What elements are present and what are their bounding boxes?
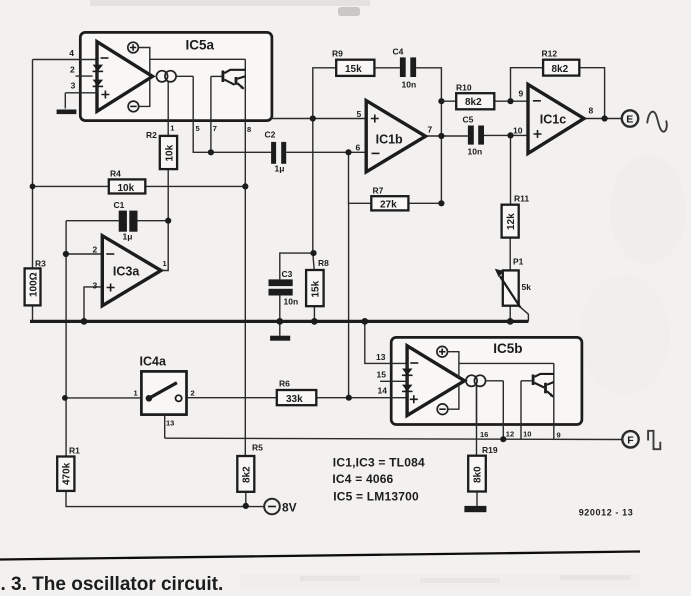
svg-text:C5: C5 [463, 115, 474, 125]
svg-text:13: 13 [166, 419, 174, 428]
svg-text:8: 8 [589, 106, 594, 116]
svg-text:IC4a: IC4a [140, 355, 167, 369]
svg-text:C3: C3 [282, 269, 293, 279]
svg-text:9: 9 [557, 431, 561, 440]
svg-text:R12: R12 [542, 49, 558, 59]
svg-text:R19: R19 [482, 445, 498, 455]
svg-text:10n: 10n [284, 297, 299, 307]
svg-text:C4: C4 [393, 47, 404, 57]
svg-text:100Ω: 100Ω [29, 272, 40, 297]
svg-text:2: 2 [70, 65, 75, 75]
svg-text:920012 - 13: 920012 - 13 [579, 508, 634, 518]
svg-text:3: 3 [93, 281, 98, 291]
svg-text:IC1,IC3 = TL084: IC1,IC3 = TL084 [333, 456, 425, 470]
svg-text:2: 2 [93, 245, 98, 255]
svg-text:14: 14 [378, 386, 388, 396]
svg-text:10k: 10k [164, 144, 175, 161]
svg-text:R9: R9 [332, 49, 343, 59]
svg-text:15: 15 [377, 370, 387, 380]
svg-text:9: 9 [519, 89, 524, 99]
svg-text:8V: 8V [282, 501, 297, 515]
svg-text:R1: R1 [69, 446, 80, 456]
svg-text:16: 16 [480, 430, 488, 439]
svg-text:470k: 470k [62, 462, 73, 485]
svg-text:10n: 10n [402, 80, 417, 90]
svg-text:1: 1 [163, 259, 167, 268]
svg-text:IC5a: IC5a [186, 38, 215, 53]
svg-text:R7: R7 [373, 186, 384, 196]
svg-text:P1: P1 [513, 257, 524, 267]
svg-text:10k: 10k [118, 183, 135, 194]
svg-text:8k0: 8k0 [473, 466, 484, 483]
svg-text:R11: R11 [514, 194, 529, 204]
svg-text:8k2: 8k2 [552, 64, 569, 75]
svg-text:IC3a: IC3a [113, 265, 140, 279]
svg-text:3: 3 [71, 81, 76, 91]
svg-text:8k2: 8k2 [465, 97, 482, 108]
svg-text:10n: 10n [468, 147, 483, 157]
svg-text:8k2: 8k2 [242, 466, 253, 483]
svg-text:R5: R5 [252, 443, 263, 453]
svg-text:5: 5 [357, 109, 362, 119]
svg-text:15k: 15k [345, 64, 362, 75]
svg-text:1μ: 1μ [123, 232, 133, 242]
svg-text:1μ: 1μ [275, 164, 285, 174]
svg-text:10: 10 [523, 430, 531, 439]
svg-text:5k: 5k [522, 282, 532, 292]
svg-text:27k: 27k [380, 200, 397, 211]
svg-text:12: 12 [506, 430, 514, 439]
svg-text:15k: 15k [311, 280, 322, 297]
svg-text:7: 7 [428, 125, 433, 135]
svg-text:2: 2 [191, 389, 195, 398]
svg-text:F: F [627, 435, 634, 447]
svg-text:12k: 12k [506, 213, 517, 230]
svg-text:10: 10 [513, 126, 523, 136]
svg-text:6: 6 [356, 143, 361, 153]
svg-text:13: 13 [376, 352, 386, 362]
svg-text:8: 8 [247, 125, 251, 134]
svg-text:IC1c: IC1c [540, 113, 566, 127]
svg-text:C2: C2 [265, 130, 276, 140]
svg-text:IC5b: IC5b [493, 341, 522, 356]
svg-text:33k: 33k [286, 394, 303, 405]
svg-text:5: 5 [196, 124, 200, 133]
svg-text:R8: R8 [318, 258, 329, 268]
svg-text:R4: R4 [110, 169, 121, 179]
svg-text:4: 4 [69, 48, 74, 58]
svg-text:1: 1 [170, 124, 174, 133]
svg-text:R6: R6 [279, 379, 290, 389]
svg-text:R10: R10 [456, 83, 472, 93]
svg-text:IC1b: IC1b [376, 133, 403, 147]
svg-text:7: 7 [213, 124, 217, 133]
svg-text:R3: R3 [35, 259, 46, 269]
svg-text:C1: C1 [114, 200, 125, 210]
svg-text:1: 1 [134, 389, 138, 398]
svg-text:IC5 = LM13700: IC5 = LM13700 [333, 490, 419, 504]
svg-text:. 3. The oscillator circuit.: . 3. The oscillator circuit. [1, 574, 224, 595]
svg-text:IC4 = 4066: IC4 = 4066 [332, 472, 393, 486]
svg-text:E: E [626, 114, 633, 126]
svg-text:R2: R2 [146, 130, 157, 140]
